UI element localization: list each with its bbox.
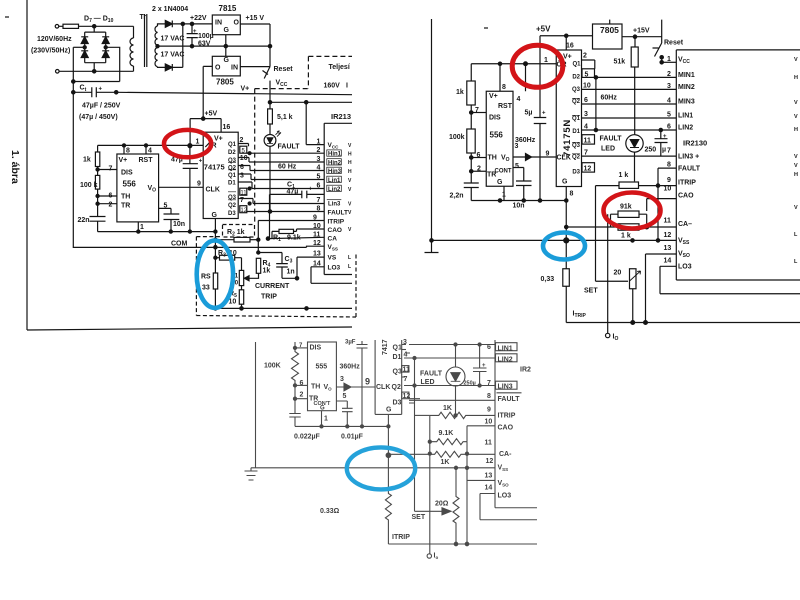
bottom ITRIP rail [566, 322, 800, 324]
svg-text:Lin3: Lin3 [328, 202, 341, 208]
bottom rail [388, 543, 537, 545]
svg-text:556: 556 [123, 180, 137, 189]
svg-text:10: 10 [240, 155, 248, 162]
pin 4 RST stub [525, 64, 527, 92]
capacitor 2,2n [464, 183, 479, 201]
svg-text:22n: 22n [78, 217, 90, 224]
diode D10 [102, 51, 109, 58]
svg-text:7: 7 [584, 149, 588, 156]
svg-text:V+: V+ [119, 157, 128, 164]
svg-text:2: 2 [240, 137, 244, 144]
ground symbol [245, 468, 258, 480]
svg-text:20Ω: 20Ω [435, 501, 449, 508]
counter 74175N box [556, 50, 581, 187]
svg-text:8: 8 [570, 191, 574, 198]
svg-text:V+: V+ [563, 54, 572, 61]
svg-text:DIS: DIS [310, 345, 322, 352]
svg-text:Q1: Q1 [228, 142, 237, 148]
resistor 5,1k [268, 109, 273, 124]
svg-text:µ: µ [662, 147, 666, 154]
svg-text:1: 1 [140, 224, 144, 231]
wire FAULT [658, 168, 676, 186]
rows to LIN pins [402, 344, 495, 346]
wire MIN2 [582, 88, 677, 90]
svg-text:Hin3: Hin3 [328, 169, 342, 175]
svg-text:2: 2 [109, 202, 113, 209]
svg-text:4: 4 [404, 352, 408, 359]
labels: schematic 1 (figure caption, component values, pin numbers, pin names) [9, 4, 352, 306]
svg-text:7: 7 [487, 380, 491, 387]
capacitor 3uF (cropped top) [357, 341, 368, 426]
reset line (pin1 of 74175) [98, 144, 204, 146]
svg-text:14: 14 [664, 258, 672, 265]
svg-text:I: I [346, 83, 348, 90]
transformer secondary 17VAC windings [155, 26, 157, 45]
svg-text:+15V: +15V [633, 28, 650, 35]
svg-text:+: + [193, 29, 197, 35]
svg-text:COM: COM [171, 241, 188, 248]
svg-text:12: 12 [664, 232, 672, 239]
svg-text:1: 1 [502, 192, 506, 199]
pin1 stub [321, 411, 323, 427]
svg-text:V: V [794, 57, 798, 63]
potentiometer 20 [630, 269, 637, 289]
Q1 pin2 stub [238, 144, 248, 147]
svg-text:0.01µF: 0.01µF [341, 434, 364, 441]
svg-text:5: 5 [585, 72, 589, 79]
wire VSS rail right [566, 239, 676, 241]
resistor 1k (556 timing) [470, 64, 472, 81]
svg-text:0.022µF: 0.022µF [294, 434, 321, 441]
svg-text:+5V: +5V [536, 25, 551, 34]
wire Io [607, 214, 609, 333]
wire LIN3 [582, 155, 677, 157]
svg-text:10: 10 [229, 299, 237, 306]
resistor 1k (556 timing) [97, 145, 99, 152]
556 ground rail [98, 231, 216, 233]
svg-text:3µF: 3µF [345, 340, 356, 346]
svg-text:(47µ / 450V): (47µ / 450V) [79, 114, 118, 121]
svg-text:11: 11 [240, 190, 247, 196]
+15V output wire [240, 24, 270, 67]
svg-text:Reset: Reset [664, 40, 684, 47]
svg-text:11: 11 [403, 366, 411, 373]
svg-text:250µ: 250µ [464, 381, 476, 387]
svg-text:CAO: CAO [328, 227, 342, 234]
labels: schematic 2 (component values, pin numbers, pin names) [449, 25, 798, 343]
capacitor 250u [473, 345, 487, 386]
svg-text:91k: 91k [620, 204, 632, 211]
svg-text:Hin2: Hin2 [328, 160, 342, 166]
svg-text:0.33Ω: 0.33Ω [320, 508, 340, 515]
svg-text:D3: D3 [228, 211, 236, 217]
resistor 1k (ITRIP) [596, 185, 620, 187]
svg-text:Q2: Q2 [228, 203, 237, 209]
svg-text:1k: 1k [263, 268, 271, 275]
svg-text:V+: V+ [489, 93, 498, 100]
resistor 100k [95, 175, 99, 189]
svg-text:D3: D3 [572, 170, 580, 176]
svg-text:Q1: Q1 [572, 62, 581, 68]
svg-text:D2: D2 [572, 75, 580, 81]
svg-text:9.1K: 9.1K [439, 430, 454, 437]
svg-text:74175: 74175 [204, 163, 225, 172]
svg-text:MIN3: MIN3 [678, 99, 695, 106]
svg-text:5,1 k: 5,1 k [277, 114, 293, 121]
svg-text:47µF / 250V: 47µF / 250V [82, 103, 121, 110]
svg-text:O: O [215, 65, 221, 72]
chip IR2 box [495, 340, 537, 508]
blue ellipse (RS resistor, schematic 1) [197, 241, 233, 308]
capacitor 47u (under red circle) [183, 146, 198, 232]
svg-text:Q1: Q1 [572, 116, 581, 122]
svg-text:TH: TH [121, 194, 130, 201]
svg-text:6: 6 [240, 164, 244, 171]
SET wire down [596, 186, 629, 282]
svg-text:16: 16 [566, 43, 574, 50]
svg-text:2: 2 [583, 53, 587, 60]
556 ground rail [471, 200, 566, 202]
svg-text:CLK: CLK [376, 384, 390, 391]
jumper box 11 [240, 188, 247, 195]
wire CAO [647, 199, 677, 211]
svg-text:FAULT: FAULT [498, 396, 521, 403]
svg-text:2 x 1N4004: 2 x 1N4004 [152, 6, 188, 13]
frame border left [26, 0, 28, 330]
svg-text:Q3: Q3 [393, 369, 402, 376]
IR2130 pins [664, 56, 701, 271]
74175 output labels [228, 142, 237, 217]
svg-text:11: 11 [664, 218, 672, 225]
svg-text:2: 2 [477, 166, 481, 173]
svg-text:G: G [497, 179, 503, 186]
wire [59, 25, 134, 27]
svg-text:Q3: Q3 [572, 87, 581, 93]
wire CA- + resistor 1k [566, 226, 676, 228]
svg-text:1 k: 1 k [619, 172, 629, 179]
stray mark [484, 27, 488, 29]
svg-text:10n: 10n [173, 221, 185, 228]
svg-text:Lin1: Lin1 [328, 178, 341, 184]
svg-text:FAULT: FAULT [420, 371, 443, 378]
wire MIN1 [595, 76, 677, 78]
svg-text:3: 3 [584, 111, 588, 118]
svg-text:LIN2: LIN2 [498, 356, 513, 363]
svg-text:IR2: IR2 [520, 367, 531, 374]
svg-text:250: 250 [645, 147, 657, 154]
VSS rail [256, 467, 496, 469]
wire MIN3 (60Hz) [582, 103, 677, 105]
diode D7 [81, 37, 88, 44]
pin 4 stub [145, 145, 147, 154]
svg-text:9: 9 [313, 214, 317, 221]
resistor R4 1k [257, 251, 260, 254]
jumper box 12 [582, 163, 595, 172]
svg-text:8: 8 [667, 162, 671, 169]
resistor 0,33 [565, 240, 567, 268]
svg-text:CAO: CAO [498, 425, 514, 432]
svg-text:9.1k: 9.1k [287, 235, 301, 242]
svg-text:63V: 63V [198, 41, 211, 48]
G stub down [387, 414, 389, 455]
svg-text:LIN1: LIN1 [498, 345, 513, 352]
blue ellipse (VSS junction, schematic 3) [347, 447, 415, 489]
svg-text:4: 4 [148, 148, 152, 155]
svg-text:6: 6 [317, 182, 321, 189]
svg-text:IR213: IR213 [331, 112, 351, 121]
wire FAULT [247, 211, 324, 213]
svg-text:12: 12 [240, 208, 247, 214]
svg-text:12: 12 [313, 240, 321, 247]
wire Lin2 + capacitor C1 47u [238, 182, 324, 189]
svg-text:60Hz: 60Hz [601, 95, 618, 102]
dashed power-stage boundary [308, 55, 352, 57]
G stub down [565, 187, 567, 241]
svg-text:CA–: CA– [678, 221, 692, 228]
svg-text:Reset: Reset [274, 66, 294, 73]
svg-text:7: 7 [240, 197, 244, 204]
svg-text:12: 12 [486, 458, 494, 465]
red ellipse (74175N pin1 node, schematic 2) [512, 45, 563, 87]
diode D9 [102, 37, 109, 44]
svg-text:G: G [386, 407, 392, 414]
transformer core [145, 14, 147, 67]
reset switch [653, 20, 662, 57]
svg-text:360Hz: 360Hz [515, 137, 536, 144]
svg-text:CAO: CAO [678, 193, 694, 200]
Q1 pin2 stub [582, 60, 595, 69]
svg-text:11: 11 [485, 440, 493, 447]
wire LO3 under chip [480, 494, 537, 520]
wire FAULT row [409, 399, 495, 401]
svg-text:H: H [794, 75, 798, 81]
svg-text:+: + [99, 87, 103, 93]
junction [93, 25, 96, 28]
wire LO3 [311, 267, 352, 284]
counter 74175 box [203, 132, 238, 218]
counter 74175 box [375, 340, 402, 414]
svg-text:DIS: DIS [489, 115, 501, 122]
svg-text:RST: RST [498, 103, 513, 110]
wire LO3 under chip [660, 266, 800, 293]
jumper box 5 [582, 69, 595, 78]
svg-text:+5V: +5V [205, 111, 218, 118]
overline boxes for Hin/Lin labels [327, 150, 342, 200]
svg-text:CA-: CA- [499, 451, 512, 458]
pin 1 stub [137, 222, 139, 232]
capacitor C1 47u [270, 191, 325, 239]
svg-text:3: 3 [340, 376, 344, 383]
svg-text:1: 1 [324, 416, 328, 423]
svg-text:9: 9 [667, 177, 671, 184]
regulator 7815 [212, 15, 240, 35]
LED FAULT [264, 135, 276, 147]
svg-text:555: 555 [316, 364, 328, 371]
0.33 zigzag [385, 455, 391, 544]
svg-text:+: + [663, 134, 667, 140]
svg-text:1n: 1n [287, 269, 295, 276]
svg-text:Q3: Q3 [572, 143, 581, 149]
svg-text:8: 8 [487, 393, 491, 400]
timer 555 box [308, 342, 337, 411]
+5V feed [539, 36, 541, 64]
svg-text:MIN1: MIN1 [678, 72, 695, 79]
LED FAULT [446, 367, 465, 386]
jumper box 11 [402, 366, 409, 373]
svg-text:D1: D1 [572, 129, 580, 135]
resistor 91k [618, 211, 639, 217]
wire VSO [646, 254, 677, 323]
svg-text:5µ: 5µ [525, 110, 533, 117]
svg-text:VS: VS [328, 255, 337, 262]
wire secondary bottom to diode [158, 66, 166, 68]
svg-text:10n: 10n [513, 203, 525, 210]
svg-text:13: 13 [313, 251, 321, 258]
resistor 10 (upper) [239, 270, 243, 285]
7805 output wire to +5V [203, 66, 212, 118]
svg-text:20: 20 [614, 270, 622, 277]
svg-text:7805: 7805 [216, 78, 234, 87]
svg-text:Tr: Tr [140, 14, 147, 21]
svg-text:IR2130: IR2130 [683, 139, 707, 148]
svg-text:6: 6 [487, 344, 491, 351]
svg-text:1k: 1k [456, 89, 464, 96]
capacitor 100u/63V [190, 22, 193, 25]
capacitor Ct 47uF/250V [73, 46, 84, 48]
svg-text:13: 13 [485, 473, 493, 480]
svg-text:Q2: Q2 [392, 384, 401, 391]
wire ITRIP [258, 221, 324, 253]
svg-text:+: + [199, 159, 203, 165]
svg-text:D3: D3 [393, 400, 402, 407]
svg-text:16: 16 [223, 124, 231, 131]
pin 1 G stub [503, 186, 505, 200]
regulator 7805 [212, 56, 240, 76]
svg-text:+: + [542, 111, 546, 117]
svg-text:+22V: +22V [190, 15, 207, 22]
svg-text:9: 9 [546, 151, 550, 158]
wire LIN1 [582, 117, 677, 119]
svg-text:H: H [794, 127, 798, 133]
svg-text:2,2n: 2,2n [450, 193, 464, 200]
wire Lin3 [238, 199, 324, 204]
svg-text:Hin1: Hin1 [328, 152, 342, 158]
svg-text:G: G [320, 406, 325, 412]
LED FAULT [626, 135, 643, 152]
svg-text:10: 10 [583, 83, 591, 90]
capacitor 0.022uF [289, 414, 388, 427]
9.1K zigzag [430, 439, 467, 445]
diode 1N4004 top [165, 21, 172, 28]
svg-text:V: V [794, 205, 798, 211]
svg-text:DIS: DIS [121, 170, 133, 177]
svg-text:Q2: Q2 [228, 166, 237, 172]
svg-text:LO3: LO3 [678, 264, 692, 271]
svg-text:RST: RST [139, 157, 154, 164]
svg-text:10: 10 [313, 223, 321, 230]
wire [172, 24, 183, 68]
svg-text:8: 8 [317, 205, 321, 212]
chip IR2130 box [676, 50, 800, 280]
svg-text:FAULT: FAULT [678, 166, 701, 173]
centre tap rail to regulators G [158, 45, 271, 47]
svg-text:H: H [348, 160, 352, 166]
svg-text:LO3: LO3 [498, 493, 512, 500]
svg-text:556: 556 [490, 131, 504, 140]
svg-text:Q2: Q2 [572, 99, 581, 105]
svg-text:14: 14 [485, 485, 493, 492]
svg-text:1K: 1K [441, 459, 450, 466]
capacitor 22n [90, 217, 106, 232]
svg-text:7: 7 [667, 148, 671, 155]
wire Hin2 [238, 158, 324, 163]
trip point arrow [249, 273, 259, 278]
svg-text:L: L [348, 264, 351, 270]
svg-text:CA: CA [328, 235, 338, 242]
svg-text:120V/60Hz: 120V/60Hz [37, 36, 72, 43]
wire CA [268, 237, 324, 238]
svg-text:CURRENT: CURRENT [255, 283, 290, 290]
svg-text:LED: LED [601, 146, 615, 153]
svg-text:4: 4 [517, 96, 521, 103]
svg-text:3: 3 [240, 173, 244, 180]
resistor R2 1k [215, 239, 234, 241]
resistor R3 10 [215, 257, 219, 259]
svg-text:LIN1: LIN1 [678, 113, 693, 120]
wire VS [297, 257, 324, 278]
wire secondary top to diode [158, 24, 166, 26]
TH wire [293, 384, 296, 387]
jumper box 5 [240, 146, 247, 153]
svg-text:9: 9 [487, 407, 491, 414]
Vo buffer to CLK [336, 386, 375, 388]
wire CAO + resistor R1 9.1k [294, 229, 325, 231]
svg-text:51k: 51k [614, 59, 626, 66]
svg-text:SET: SET [584, 288, 598, 295]
svg-text:7: 7 [317, 197, 321, 204]
svg-text:LIN2: LIN2 [678, 125, 693, 132]
svg-text:7: 7 [404, 376, 408, 383]
svg-text:G: G [224, 27, 230, 34]
svg-text:5: 5 [317, 173, 321, 180]
svg-text:+15 V: +15 V [246, 15, 265, 22]
svg-text:SET: SET [412, 514, 426, 521]
svg-text:5: 5 [667, 112, 671, 119]
svg-text:4: 4 [667, 98, 671, 105]
svg-text:Q1: Q1 [228, 173, 237, 179]
svg-text:8: 8 [502, 84, 506, 91]
svg-text:1: 1 [196, 139, 200, 146]
capacitor 5u [534, 64, 547, 201]
wire VSO [467, 479, 495, 481]
dashed box around R2 [223, 225, 255, 238]
svg-text:100 k: 100 k [80, 182, 98, 189]
svg-text:12: 12 [584, 166, 592, 173]
svg-text:L: L [348, 255, 351, 261]
+5V rail [190, 118, 221, 120]
svg-text:+: + [309, 187, 313, 193]
svg-text:MIN2: MIN2 [678, 84, 695, 91]
74175 G stub [214, 219, 216, 248]
svg-text:LED: LED [421, 379, 435, 386]
svg-text:7815: 7815 [219, 4, 237, 13]
svg-text:9: 9 [365, 377, 370, 387]
svg-text:LIN3 +: LIN3 + [678, 154, 699, 161]
resistor R5 10 [239, 290, 243, 304]
red ellipse (74175 pin1 node, schematic 1) [164, 130, 211, 157]
labels: schematic 3 (component values, pin numbers, pin names) [264, 339, 531, 560]
svg-text:6: 6 [300, 380, 304, 387]
